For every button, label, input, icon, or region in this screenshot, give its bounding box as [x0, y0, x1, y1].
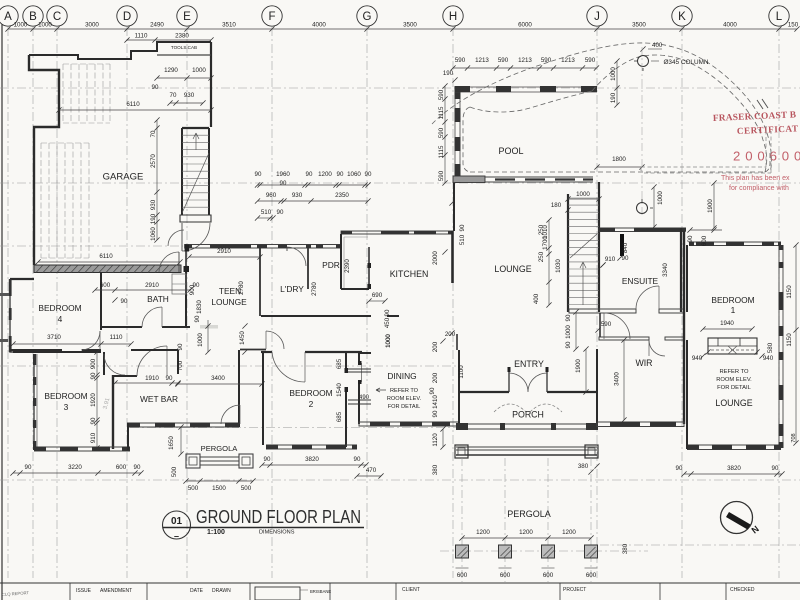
- svg-text:6110: 6110: [126, 101, 140, 108]
- 700 90 dims: [177, 343, 184, 371]
- svg-text:BEDROOM: BEDROOM: [711, 295, 754, 305]
- svg-text:1650: 1650: [168, 436, 175, 450]
- bedroom1 refer note: [716, 369, 752, 391]
- svg-text:600: 600: [457, 572, 468, 579]
- svg-text:TOOLS.CAB: TOOLS.CAB: [171, 45, 197, 50]
- entry vertical dims 1410 90 1120 380: [432, 395, 446, 476]
- svg-text:600: 600: [586, 572, 597, 579]
- svg-text:1213: 1213: [561, 57, 575, 64]
- title block logo box: [255, 587, 331, 600]
- svg-text:250: 250: [538, 224, 545, 235]
- svg-text:500: 500: [241, 485, 252, 492]
- svg-text:6110: 6110: [99, 253, 113, 260]
- svg-text:6000: 6000: [518, 22, 532, 29]
- small pergola dims 500 1500 500: [183, 478, 255, 492]
- small pergola label: [201, 444, 239, 453]
- kitchen right wall: [451, 231, 454, 283]
- garage 1290 1000 dims: [154, 67, 213, 81]
- kitchen top wall: [341, 231, 453, 234]
- room label BEDROOM 2: [289, 388, 332, 409]
- pdr-kitchen divider wall: [340, 234, 342, 289]
- bedroom4-bath divider wall: [100, 272, 102, 330]
- smudge: [200, 325, 218, 329]
- svg-text:ENTRY: ENTRY: [514, 359, 544, 369]
- svg-text:1060: 1060: [347, 171, 361, 178]
- svg-text:L: L: [776, 11, 783, 23]
- porch right wall: [596, 349, 598, 427]
- room label DINING: [387, 371, 416, 381]
- wetbar bottom-left connector wall: [127, 423, 129, 450]
- svg-text:2570: 2570: [150, 154, 157, 168]
- svg-text:910: 910: [605, 256, 616, 263]
- bedroom4 bottom wall: [10, 349, 101, 351]
- bedroom2 top wall: [261, 351, 362, 353]
- svg-text:1110: 1110: [110, 334, 123, 341]
- bedroom1 top wall with windows: [689, 242, 781, 246]
- bath dims 600 2910: [92, 282, 192, 293]
- column C2 1000 dim: [651, 184, 664, 229]
- svg-text:90: 90: [90, 372, 97, 379]
- svg-text:E: E: [183, 11, 191, 23]
- svg-text:3: 3: [64, 402, 69, 412]
- garage 6110 dim upper: [56, 101, 213, 113]
- svg-text:685: 685: [336, 411, 343, 422]
- svg-text:LOUNGE: LOUNGE: [494, 264, 531, 274]
- dining bottom wall: [359, 422, 459, 427]
- svg-text:ROOM ELEV.: ROOM ELEV.: [716, 377, 752, 383]
- wetbar nib wall 700: [177, 350, 179, 374]
- svg-text:REFER TO: REFER TO: [719, 369, 749, 375]
- teen lounge 2910 dim: [186, 248, 262, 260]
- svg-text:1540: 1540: [336, 383, 343, 397]
- svg-text:90: 90: [177, 343, 184, 350]
- dining top wall nib: [359, 352, 371, 354]
- svg-text:2: 2: [309, 399, 314, 409]
- svg-text:940: 940: [763, 355, 774, 362]
- svg-text:4000: 4000: [312, 22, 326, 29]
- svg-text:700: 700: [177, 360, 184, 371]
- svg-text:590: 590: [438, 127, 445, 138]
- svg-text:90: 90: [772, 465, 779, 472]
- svg-text:CHECKED: CHECKED: [730, 587, 755, 593]
- pergola dims 600 x4: [456, 568, 598, 579]
- svg-text:90: 90: [429, 387, 436, 394]
- svg-text:2490: 2490: [150, 22, 164, 29]
- room label BEDROOM 3: [44, 391, 87, 412]
- ldry right wall: [307, 246, 309, 289]
- garage door arc to hall: [182, 223, 210, 251]
- svg-text:1000: 1000: [14, 22, 28, 29]
- bedroom3 bottom wall with windows: [34, 447, 130, 452]
- 1150 dims right edge: [786, 242, 799, 445]
- svg-text:690: 690: [372, 292, 383, 299]
- teen lounge hall door arc: [168, 230, 184, 246]
- svg-text:900: 900: [189, 284, 196, 295]
- svg-text:90: 90: [90, 417, 97, 424]
- svg-text:1120: 1120: [432, 433, 439, 447]
- svg-text:685: 685: [336, 358, 343, 369]
- svg-text:90: 90: [277, 209, 284, 216]
- bath right wall: [185, 272, 187, 327]
- svg-text:4000: 4000: [723, 22, 737, 29]
- svg-text:90: 90: [280, 180, 287, 187]
- room label KITCHEN: [390, 269, 429, 279]
- bedroom2 bottom wall with windows: [266, 445, 357, 450]
- svg-text:H: H: [449, 11, 457, 23]
- svg-text:1700: 1700: [542, 236, 549, 250]
- svg-text:1000: 1000: [576, 191, 590, 198]
- bedroom1 left wall: [686, 245, 688, 312]
- deck dims row3 510 90: [255, 209, 284, 221]
- svg-text:510: 510: [459, 234, 466, 245]
- wir bottom wall: [597, 422, 684, 427]
- bedroom2 bottom dims 90 3820 90 470: [259, 456, 368, 468]
- svg-text:for compliance with: for compliance with: [729, 185, 789, 192]
- svg-text:1500: 1500: [212, 485, 226, 492]
- svg-text:WET BAR: WET BAR: [140, 394, 178, 404]
- teen-ldry divider wall: [259, 246, 261, 316]
- red stamp FRASER COAST: [713, 110, 797, 124]
- teen lounge left wall: [184, 244, 190, 272]
- svg-text:930: 930: [292, 192, 303, 199]
- svg-text:BEDROOM: BEDROOM: [44, 391, 87, 401]
- svg-text:380: 380: [622, 543, 629, 554]
- breezeway door arc: [221, 405, 240, 424]
- horizontal grid lines: [0, 88, 800, 551]
- garage outer walls: [29, 42, 211, 265]
- svg-text:01: 01: [171, 516, 183, 527]
- ensuite top wall: [599, 228, 686, 232]
- 690 dim: [366, 292, 387, 304]
- wir right wall: [683, 231, 685, 424]
- svg-text:150: 150: [788, 22, 799, 29]
- deck dims row2 960 90 930 2350: [255, 192, 371, 204]
- svg-text:1:100: 1:100: [207, 529, 225, 536]
- svg-text:–: –: [174, 531, 179, 541]
- svg-text:200: 200: [432, 372, 439, 383]
- dining refer note: [376, 388, 422, 410]
- svg-text:90: 90: [25, 464, 32, 471]
- room label PERGOLA large: [507, 509, 551, 519]
- svg-text:WIR: WIR: [635, 358, 652, 368]
- svg-text:70: 70: [170, 92, 177, 99]
- svg-text:3400: 3400: [211, 375, 225, 382]
- svg-text:AMENDMENT: AMENDMENT: [100, 588, 132, 594]
- sheet border left edge: [1, 24, 3, 600]
- wir left wall: [599, 313, 601, 337]
- svg-text:GARAGE: GARAGE: [103, 172, 144, 183]
- pool fence outer dashed curve: [432, 43, 772, 172]
- pergola dims 1200 x3: [459, 529, 593, 541]
- svg-text:200: 200: [432, 341, 439, 352]
- svg-text:1200: 1200: [519, 529, 533, 536]
- left edge neighbor stubs: [0, 293, 9, 342]
- 3400 dim line: [175, 375, 264, 387]
- svg-text:600: 600: [100, 282, 111, 289]
- svg-text:DATE: DATE: [190, 588, 204, 594]
- bedroom3 vertical dims 900 90 1920 90 910: [90, 349, 100, 450]
- garage car space dashed lines upper: [63, 64, 110, 123]
- svg-text:590: 590: [585, 57, 596, 64]
- bedroom1 wardrobe: [708, 338, 757, 354]
- bedroom1 1940 dim: [700, 320, 754, 332]
- entry double doors: [508, 367, 549, 392]
- kitchen pantry wall: [368, 247, 372, 289]
- title underline: [163, 527, 365, 529]
- svg-text:1900: 1900: [707, 199, 714, 213]
- bottom left report text: [2, 590, 30, 597]
- svg-text:LOUNGE: LOUNGE: [211, 297, 247, 307]
- 1000 dim kitchen-dining: [385, 334, 392, 348]
- teen lounge hall wall with door: [261, 316, 286, 349]
- wetbar right wall: [238, 350, 240, 427]
- lounge bottom dims 90 3820 90: [676, 465, 785, 477]
- svg-text:BRISBANE: BRISBANE: [310, 589, 331, 594]
- deck wall left of kitchen: [453, 183, 455, 231]
- svg-text:90: 90: [152, 84, 159, 91]
- svg-text:1450: 1450: [239, 331, 246, 345]
- pergola 380 labels: [578, 463, 600, 475]
- wardrobe dims 940 580 940: [692, 342, 774, 362]
- red stamp compliance text: [729, 185, 789, 192]
- svg-text:90: 90: [337, 171, 344, 178]
- svg-text:L'DRY: L'DRY: [280, 284, 304, 294]
- svg-text:90: 90: [384, 309, 391, 316]
- svg-text:600: 600: [701, 235, 708, 246]
- svg-text:190: 190: [443, 70, 454, 77]
- svg-text:GROUND FLOOR PLAN: GROUND FLOOR PLAN: [196, 507, 361, 527]
- pool left dimension 590/1115: [438, 83, 448, 185]
- room label BATH: [147, 294, 169, 304]
- room label WET BAR: [140, 394, 178, 404]
- ensuite door arc: [636, 286, 659, 309]
- bedroom3 door arc: [104, 354, 125, 375]
- room label PDR: [322, 260, 340, 270]
- svg-text:Ø345 COLUMN: Ø345 COLUMN: [663, 59, 708, 66]
- svg-text:BEDROOM: BEDROOM: [289, 388, 332, 398]
- svg-text:1410: 1410: [432, 395, 439, 409]
- svg-text:ROOM ELEV.: ROOM ELEV.: [387, 396, 422, 402]
- svg-text:1200: 1200: [476, 529, 490, 536]
- svg-text:CLIENT: CLIENT: [402, 587, 420, 593]
- garage car space dashed lines lower: [41, 143, 89, 258]
- svg-text:400: 400: [652, 42, 663, 49]
- svg-text:1900: 1900: [575, 359, 582, 373]
- pool dashed outline: [463, 91, 770, 172]
- svg-text:510: 510: [261, 209, 272, 216]
- bedroom4 door arc: [81, 331, 100, 350]
- pencil note 3.91: [103, 397, 112, 410]
- small pergola structure: [186, 454, 253, 468]
- svg-text:1060: 1060: [150, 227, 157, 241]
- GARAGE label: [103, 172, 144, 183]
- svg-text:90: 90: [365, 171, 372, 178]
- svg-text:1150: 1150: [786, 285, 793, 299]
- svg-text:2380: 2380: [175, 33, 189, 40]
- svg-text:1000: 1000: [657, 191, 664, 205]
- svg-text:70: 70: [150, 130, 157, 137]
- svg-text:1000: 1000: [38, 22, 52, 29]
- 708 label right edge: [791, 433, 797, 442]
- 1900 dim right of column: [707, 180, 717, 230]
- svg-text:1213: 1213: [518, 57, 532, 64]
- bedroom3 left wall with windows: [33, 354, 37, 450]
- svg-text:PROJECT: PROJECT: [563, 587, 586, 593]
- lounge right bottom wall with windows: [687, 445, 781, 450]
- svg-text:708: 708: [791, 433, 797, 442]
- bath door arc: [142, 307, 162, 327]
- 590 dim wir: [595, 321, 611, 333]
- svg-text:380: 380: [578, 463, 589, 470]
- svg-text:2350: 2350: [335, 192, 349, 199]
- deck dims row1 90 1960 90 1200 90 1060 90: [255, 171, 372, 188]
- svg-text:1000: 1000: [565, 325, 572, 339]
- bath bottom wall: [101, 326, 190, 328]
- wetbar door arc: [137, 346, 167, 376]
- porch dashed arcs: [494, 404, 562, 412]
- entry bottom wall: [459, 391, 597, 393]
- svg-text:840: 840: [622, 242, 629, 253]
- svg-text:90: 90: [255, 171, 262, 178]
- ensuite shower wall: [620, 234, 624, 256]
- garage bottom wall hatched: [34, 265, 181, 273]
- room label WIR: [635, 358, 652, 368]
- title block vertical dividers: [147, 583, 726, 600]
- 510 90 2000 dims kitchen right: [432, 200, 466, 264]
- svg-text:PORCH: PORCH: [512, 410, 544, 420]
- svg-text:3710: 3710: [47, 334, 61, 341]
- title GROUND FLOOR PLAN: [196, 507, 361, 527]
- title circle 01: [163, 511, 191, 541]
- svg-text:960: 960: [266, 192, 277, 199]
- svg-text:POOL: POOL: [498, 146, 523, 156]
- svg-text:3500: 3500: [632, 22, 646, 29]
- svg-text:1000: 1000: [197, 333, 204, 347]
- svg-text:90: 90: [687, 235, 694, 242]
- hall top wall above wetbar: [131, 349, 178, 351]
- svg-text:90: 90: [459, 224, 466, 231]
- room label BEDROOM 1: [711, 295, 754, 315]
- svg-text:BATH: BATH: [147, 294, 169, 304]
- ensuite right wall: [680, 228, 682, 312]
- pergola dashed post lines: [462, 458, 591, 582]
- svg-text:2000: 2000: [432, 251, 439, 265]
- ldry door arc: [287, 247, 306, 266]
- pdr bottom wall: [341, 288, 369, 290]
- svg-text:590: 590: [438, 89, 445, 100]
- bedroom2 left wall: [262, 352, 264, 445]
- svg-text:This plan has been ex: This plan has been ex: [721, 175, 790, 182]
- stair S1 garage: [182, 128, 209, 215]
- svg-text:PERGOLA: PERGOLA: [201, 444, 239, 453]
- svg-text:90: 90: [166, 375, 173, 382]
- pool top dimension 590/1213: [450, 57, 599, 71]
- room label LDRY: [280, 284, 304, 294]
- svg-text:3820: 3820: [727, 465, 741, 472]
- bedroom3 bottom dims 90 3220 600 90: [10, 464, 143, 476]
- svg-text:90: 90: [565, 341, 572, 348]
- svg-text:470: 470: [366, 467, 377, 474]
- svg-text:ISSUE: ISSUE: [76, 588, 92, 594]
- wetbar top wall: [113, 375, 137, 377]
- svg-text:90: 90: [622, 255, 629, 262]
- svg-text:DRAWN: DRAWN: [212, 588, 231, 594]
- bedroom2 side dims 685 1540 490 685: [336, 358, 370, 422]
- bedroom3 right wall: [104, 352, 113, 449]
- grid bubbles A-L: [0, 6, 789, 26]
- svg-text:K: K: [678, 11, 686, 23]
- title block labels: [76, 587, 755, 594]
- svg-text:1200: 1200: [318, 171, 332, 178]
- svg-text:1920: 1920: [90, 393, 97, 407]
- svg-text:1100: 1100: [458, 365, 465, 379]
- wetbar bottom wall with windows: [127, 423, 239, 428]
- entry left wall: [457, 334, 459, 424]
- svg-text:600: 600: [543, 572, 554, 579]
- hall dims 3710 1110: [10, 334, 133, 347]
- svg-text:1000: 1000: [385, 334, 392, 348]
- svg-text:PDR: PDR: [322, 260, 340, 270]
- svg-text:REFER TO: REFER TO: [390, 388, 419, 394]
- 2780 vertical dims: [238, 259, 351, 296]
- hall dims 1000 1450: [194, 315, 248, 355]
- POOL label: [498, 146, 523, 156]
- svg-text:590: 590: [498, 57, 509, 64]
- 90 1000 90 dims wir left: [565, 309, 579, 351]
- red stamp this plan text: [721, 175, 790, 182]
- bedroom2 right wall: [345, 352, 349, 447]
- dimension 1110 2380: [124, 33, 213, 43]
- red stamp number 200600: [733, 149, 800, 164]
- svg-text:590: 590: [601, 321, 612, 328]
- wir dims 3400: [614, 337, 627, 422]
- svg-text:2 0 0 6 0 0: 2 0 0 6 0 0: [733, 149, 800, 164]
- bedroom4 left outer wall with windows: [9, 279, 34, 352]
- svg-text:ENSUITE: ENSUITE: [622, 276, 659, 286]
- kitchen bench lines: [344, 237, 368, 288]
- svg-text:3400: 3400: [614, 372, 621, 386]
- svg-text:600: 600: [500, 572, 511, 579]
- room label BEDROOM 4: [38, 303, 81, 324]
- wir door arc: [649, 340, 665, 356]
- svg-text:3000: 3000: [85, 22, 99, 29]
- pool bottom wall hatched section: [453, 176, 485, 183]
- svg-text:90: 90: [194, 315, 201, 322]
- svg-text:500: 500: [171, 466, 178, 477]
- svg-text:580: 580: [767, 342, 774, 353]
- bath vanity: [172, 274, 186, 294]
- svg-text:DIMENSIONS: DIMENSIONS: [259, 530, 295, 536]
- svg-text:90: 90: [565, 314, 572, 321]
- bedroom1 90 600 dims: [687, 227, 722, 246]
- svg-text:3220: 3220: [68, 464, 82, 471]
- svg-text:FOR DETAIL: FOR DETAIL: [717, 385, 751, 391]
- svg-text:380: 380: [432, 464, 439, 475]
- stamp dashed box: [641, 126, 771, 173]
- svg-text:90: 90: [676, 465, 683, 472]
- svg-text:1000: 1000: [192, 67, 206, 74]
- dining left wall with window: [358, 353, 362, 424]
- title block top line: [0, 583, 800, 600]
- svg-text:1290: 1290: [164, 67, 178, 74]
- svg-text:1213: 1213: [475, 57, 489, 64]
- bedroom3 top wall: [13, 351, 101, 353]
- svg-text:90: 90: [432, 410, 439, 417]
- svg-text:F: F: [268, 11, 275, 23]
- title scale 1:100: [207, 529, 225, 536]
- svg-text:450: 450: [384, 317, 391, 328]
- bedroom1 right outer wall with windows: [779, 245, 784, 448]
